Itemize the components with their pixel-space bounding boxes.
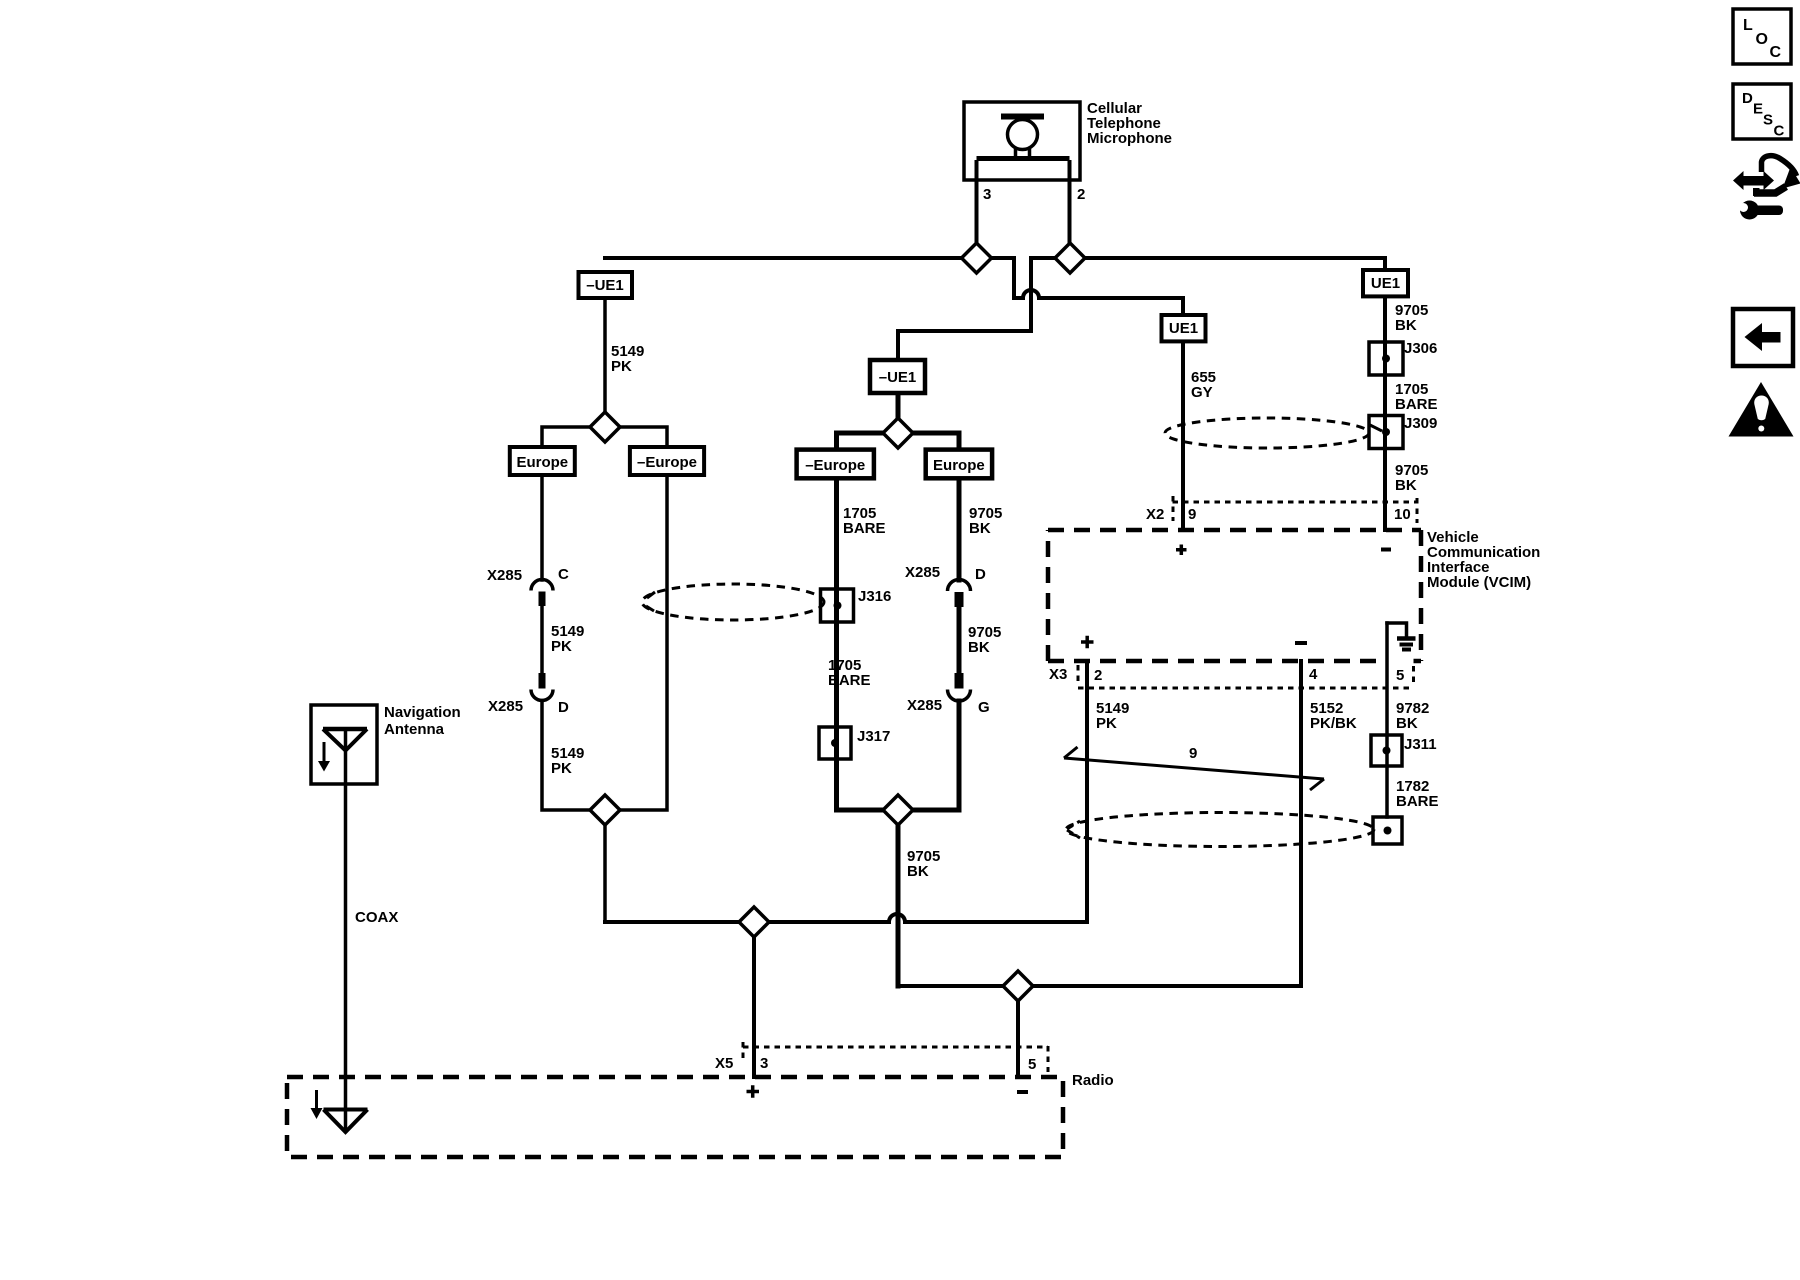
dashed ellipse (J316 callout) — [642, 584, 824, 620]
ground symbol (VCIM internal) — [1397, 639, 1416, 650]
wire COAX: antenna to radio — [344, 729, 348, 1131]
wire 1705 BARE: -Europe drop through J316 J317 to splice D6 — [837, 478, 884, 810]
antenna symbol — [323, 729, 367, 784]
svg-text:UE1: UE1 — [1371, 275, 1400, 292]
microphone symbol — [977, 117, 1070, 181]
option box UE1 (right branch) — [1363, 270, 1408, 296]
svg-text:PK/BK: PK/BK — [1310, 715, 1357, 732]
svg-text:3: 3 — [760, 1055, 768, 1072]
svg-text:BARE: BARE — [1395, 396, 1438, 413]
minus sign (pin 10) — [1381, 548, 1391, 552]
navigation antenna box — [311, 705, 377, 784]
svg-text:COAX: COAX — [355, 909, 398, 926]
svg-text:Antenna: Antenna — [384, 721, 445, 738]
splice J306 box — [1369, 342, 1403, 375]
X2 right stub — [1416, 498, 1419, 523]
wire: left -Europe drop to splice D5 — [620, 475, 667, 810]
option box -UE1 (left) — [579, 272, 633, 298]
option box Europe (left) — [510, 447, 575, 475]
minus sign (pin 4, inside VCIM) — [1295, 641, 1307, 645]
splice diamond D7 (+ run) — [739, 907, 769, 937]
radio down arrow — [315, 1090, 318, 1109]
svg-text:J316: J316 — [858, 588, 891, 605]
svg-text:–UE1: –UE1 — [879, 369, 917, 386]
svg-text:X5: X5 — [715, 1055, 733, 1072]
wire: from splice D2 left, down, left to center -UE1 — [898, 258, 1055, 360]
svg-text:–Europe: –Europe — [637, 454, 697, 471]
svg-text:BK: BK — [1395, 317, 1417, 334]
svg-text:3: 3 — [983, 186, 991, 203]
svg-text:4: 4 — [1309, 666, 1318, 683]
splice diamond D4 (center -UE1) — [883, 418, 913, 448]
connector X285 C symbol — [531, 580, 553, 607]
wire 9782 BK: ground sym through VCIM pin5, J311 to terminal — [1385, 623, 1389, 817]
svg-text:–Europe: –Europe — [805, 457, 865, 474]
svg-text:J306: J306 — [1404, 340, 1437, 357]
svg-text:E: E — [1753, 101, 1763, 118]
splice diamond D1 (mic pin 3) — [962, 243, 992, 273]
reroute icon (double arrow, outline arrow, wrench) — [1733, 156, 1800, 220]
svg-text:9: 9 — [1189, 745, 1197, 762]
splice J316 box — [821, 589, 854, 622]
svg-text:Radio: Radio — [1072, 1072, 1114, 1089]
warning triangle icon — [1729, 382, 1794, 437]
antenna down arrow — [323, 742, 326, 762]
wire hop: + run over shield drop — [889, 914, 905, 922]
wire 9705 BK: splice D6 down to shield run — [896, 825, 901, 986]
svg-text:9: 9 — [1188, 506, 1196, 523]
option box -Europe (left) — [630, 447, 704, 475]
svg-text:BK: BK — [1396, 715, 1418, 732]
wire 5149 PK: X285 D down, over to splice D5 — [542, 701, 590, 811]
svg-text:BK: BK — [969, 520, 991, 537]
wire: mic pin 2 drop to splice — [1068, 160, 1072, 258]
wire 5149 PK: between X285 C and D — [540, 606, 544, 673]
splice J317 box — [819, 727, 851, 759]
wire: splice D7 down to radio X5 pin 3 — [752, 937, 756, 1077]
svg-text:C: C — [1770, 44, 1782, 61]
wire hop: 655 run over shield drop — [1023, 290, 1039, 298]
connector X5 dotted line — [743, 1046, 1048, 1049]
wire: splice D4 right branch to Europe box — [913, 433, 960, 450]
svg-text:BK: BK — [907, 863, 929, 880]
wire: bottom + run y=922 with hop, up to VCIM pin 2 — [605, 661, 1087, 922]
dashed ellipse (terminal callout) — [1066, 813, 1374, 847]
svg-text:X2: X2 — [1146, 506, 1164, 523]
wire: left -UE1 box drop to splice D3 — [603, 298, 607, 412]
X2 left stub — [1172, 496, 1175, 521]
svg-text:X285: X285 — [487, 567, 522, 584]
wire: splice D3 left branch to Europe box — [542, 427, 590, 447]
svg-text:O: O — [1756, 31, 1768, 48]
option box Europe (center) — [926, 450, 992, 479]
svg-text:X285: X285 — [905, 564, 940, 581]
svg-text:D: D — [1742, 90, 1753, 107]
back arrow icon box — [1733, 309, 1793, 366]
ellipse arrow tip — [646, 592, 655, 611]
svg-text:J311: J311 — [1404, 736, 1437, 753]
svg-text:X285: X285 — [907, 697, 942, 714]
svg-text:5: 5 — [1396, 667, 1404, 684]
X3 left stub — [1077, 665, 1080, 684]
svg-text:C: C — [1774, 123, 1785, 140]
wire 5149 PK: Europe box to connector X285 C — [540, 475, 544, 580]
dashed ellipse (J309 callout) — [1165, 418, 1369, 448]
connector X2 dotted line — [1173, 501, 1417, 504]
VCIM dashed box bottom — [1048, 659, 1421, 664]
minus sign (radio pin 5) — [1017, 1090, 1028, 1094]
X5 right stub — [1047, 1046, 1050, 1072]
svg-text:PK: PK — [551, 638, 572, 655]
radio dashed box — [287, 1077, 1063, 1157]
svg-text:PK: PK — [1096, 715, 1117, 732]
X3 right stub — [1412, 666, 1415, 685]
svg-text:D: D — [975, 566, 986, 583]
svg-text:2: 2 — [1094, 667, 1102, 684]
connector X285 G symbol (center) — [948, 673, 971, 701]
svg-text:5: 5 — [1028, 1056, 1036, 1073]
svg-text:J317: J317 — [857, 728, 890, 745]
option box UE1 (655 branch) — [1162, 315, 1206, 341]
wire 9705 BK: between X285 D and G — [957, 607, 962, 673]
svg-text:BARE: BARE — [1396, 793, 1439, 810]
ground terminal box — [1373, 817, 1402, 844]
wire 9705 BK: UE1 right box through J306 J309 to VCIM pin 10 — [1383, 296, 1387, 530]
svg-text:Module (VCIM): Module (VCIM) — [1427, 574, 1531, 591]
svg-text:2: 2 — [1077, 186, 1085, 203]
X5 left stub — [742, 1042, 745, 1062]
wire 9705 BK: Europe drop to X285 D connector — [957, 478, 962, 580]
connector X3 dotted line — [1078, 687, 1413, 690]
wire: mic pin 3 drop to splice — [975, 160, 979, 258]
svg-text:BARE: BARE — [828, 672, 871, 689]
ellipse arrow into J309 — [1370, 425, 1382, 431]
splice diamond D5 (left group bottom) — [590, 795, 620, 825]
wire: center -UE1 drop to splice D4 — [896, 393, 901, 418]
svg-text:S: S — [1763, 112, 1773, 129]
wire: splice D4 left branch to -Europe box — [837, 433, 884, 450]
wire: bus from -UE1 left to corner, down, 655 run to UE1 with hop — [605, 258, 1183, 315]
option box -UE1 (center) — [870, 360, 925, 393]
svg-text:Europe: Europe — [933, 457, 985, 474]
svg-text:X3: X3 — [1049, 666, 1067, 683]
svg-text:Europe: Europe — [516, 454, 568, 471]
splice diamond D3 (left -UE1) — [590, 412, 620, 442]
svg-text:Microphone: Microphone — [1087, 130, 1172, 147]
svg-text:UE1: UE1 — [1169, 320, 1198, 337]
svg-text:Navigation: Navigation — [384, 704, 461, 721]
wire: splice D3 right branch to -Europe box — [621, 427, 668, 447]
ground hook — [1387, 623, 1407, 637]
VCIM dashed box left — [1046, 530, 1051, 661]
connector X285 D symbol — [531, 673, 553, 701]
svg-text:–UE1: –UE1 — [586, 277, 624, 294]
splice J309 box — [1369, 416, 1403, 449]
svg-text:G: G — [978, 699, 990, 716]
radio antenna input symbol — [324, 1110, 368, 1133]
splice diamond D8 (shield run) — [1003, 971, 1033, 1001]
svg-text:BK: BK — [968, 639, 990, 656]
svg-text:BARE: BARE — [843, 520, 886, 537]
svg-text:D: D — [558, 699, 569, 716]
connector X285 D symbol (center) — [948, 580, 971, 608]
svg-text:PK: PK — [551, 760, 572, 777]
wire: shield run y=986 right, up to VCIM pin 4 (5152) — [898, 661, 1301, 986]
plus sign (pin 2, inside VCIM) — [1081, 636, 1094, 649]
wire 655 GY: UE1 box to VCIM pin 9 — [1181, 341, 1185, 530]
splice diamond D2 (mic pin 2) — [1055, 243, 1085, 273]
VCIM dashed box top — [1048, 528, 1421, 533]
svg-text:C: C — [558, 566, 569, 583]
wire 9705 BK: X285 G down to splice D6 — [913, 701, 959, 810]
svg-text:GY: GY — [1191, 384, 1213, 401]
plus sign (radio pin 3) — [747, 1085, 760, 1098]
svg-text:X285: X285 — [488, 698, 523, 715]
wire: splice D8 down to radio X5 pin 5 — [1016, 1001, 1020, 1077]
svg-text:L: L — [1743, 17, 1753, 34]
VCIM dashed box right — [1419, 530, 1424, 661]
svg-text:BK: BK — [1395, 477, 1417, 494]
svg-text:10: 10 — [1394, 506, 1411, 523]
DESC icon box — [1733, 84, 1791, 139]
note 9 arrow — [1064, 747, 1324, 790]
splice diamond D6 (center group bottom) — [883, 795, 913, 825]
option box -Europe (center) — [797, 450, 874, 479]
svg-text:PK: PK — [611, 358, 632, 375]
LOC icon box — [1733, 9, 1791, 64]
plus sign (pin 9) — [1176, 545, 1187, 556]
ellipse arrow tip — [1067, 821, 1080, 838]
wire: from splice D2 right to UE1 right box — [1085, 258, 1385, 270]
wire: splice D5 down to + run — [603, 825, 607, 922]
splice J311 box — [1371, 735, 1402, 766]
cellular telephone microphone box — [964, 102, 1080, 180]
svg-text:J309: J309 — [1404, 415, 1437, 432]
